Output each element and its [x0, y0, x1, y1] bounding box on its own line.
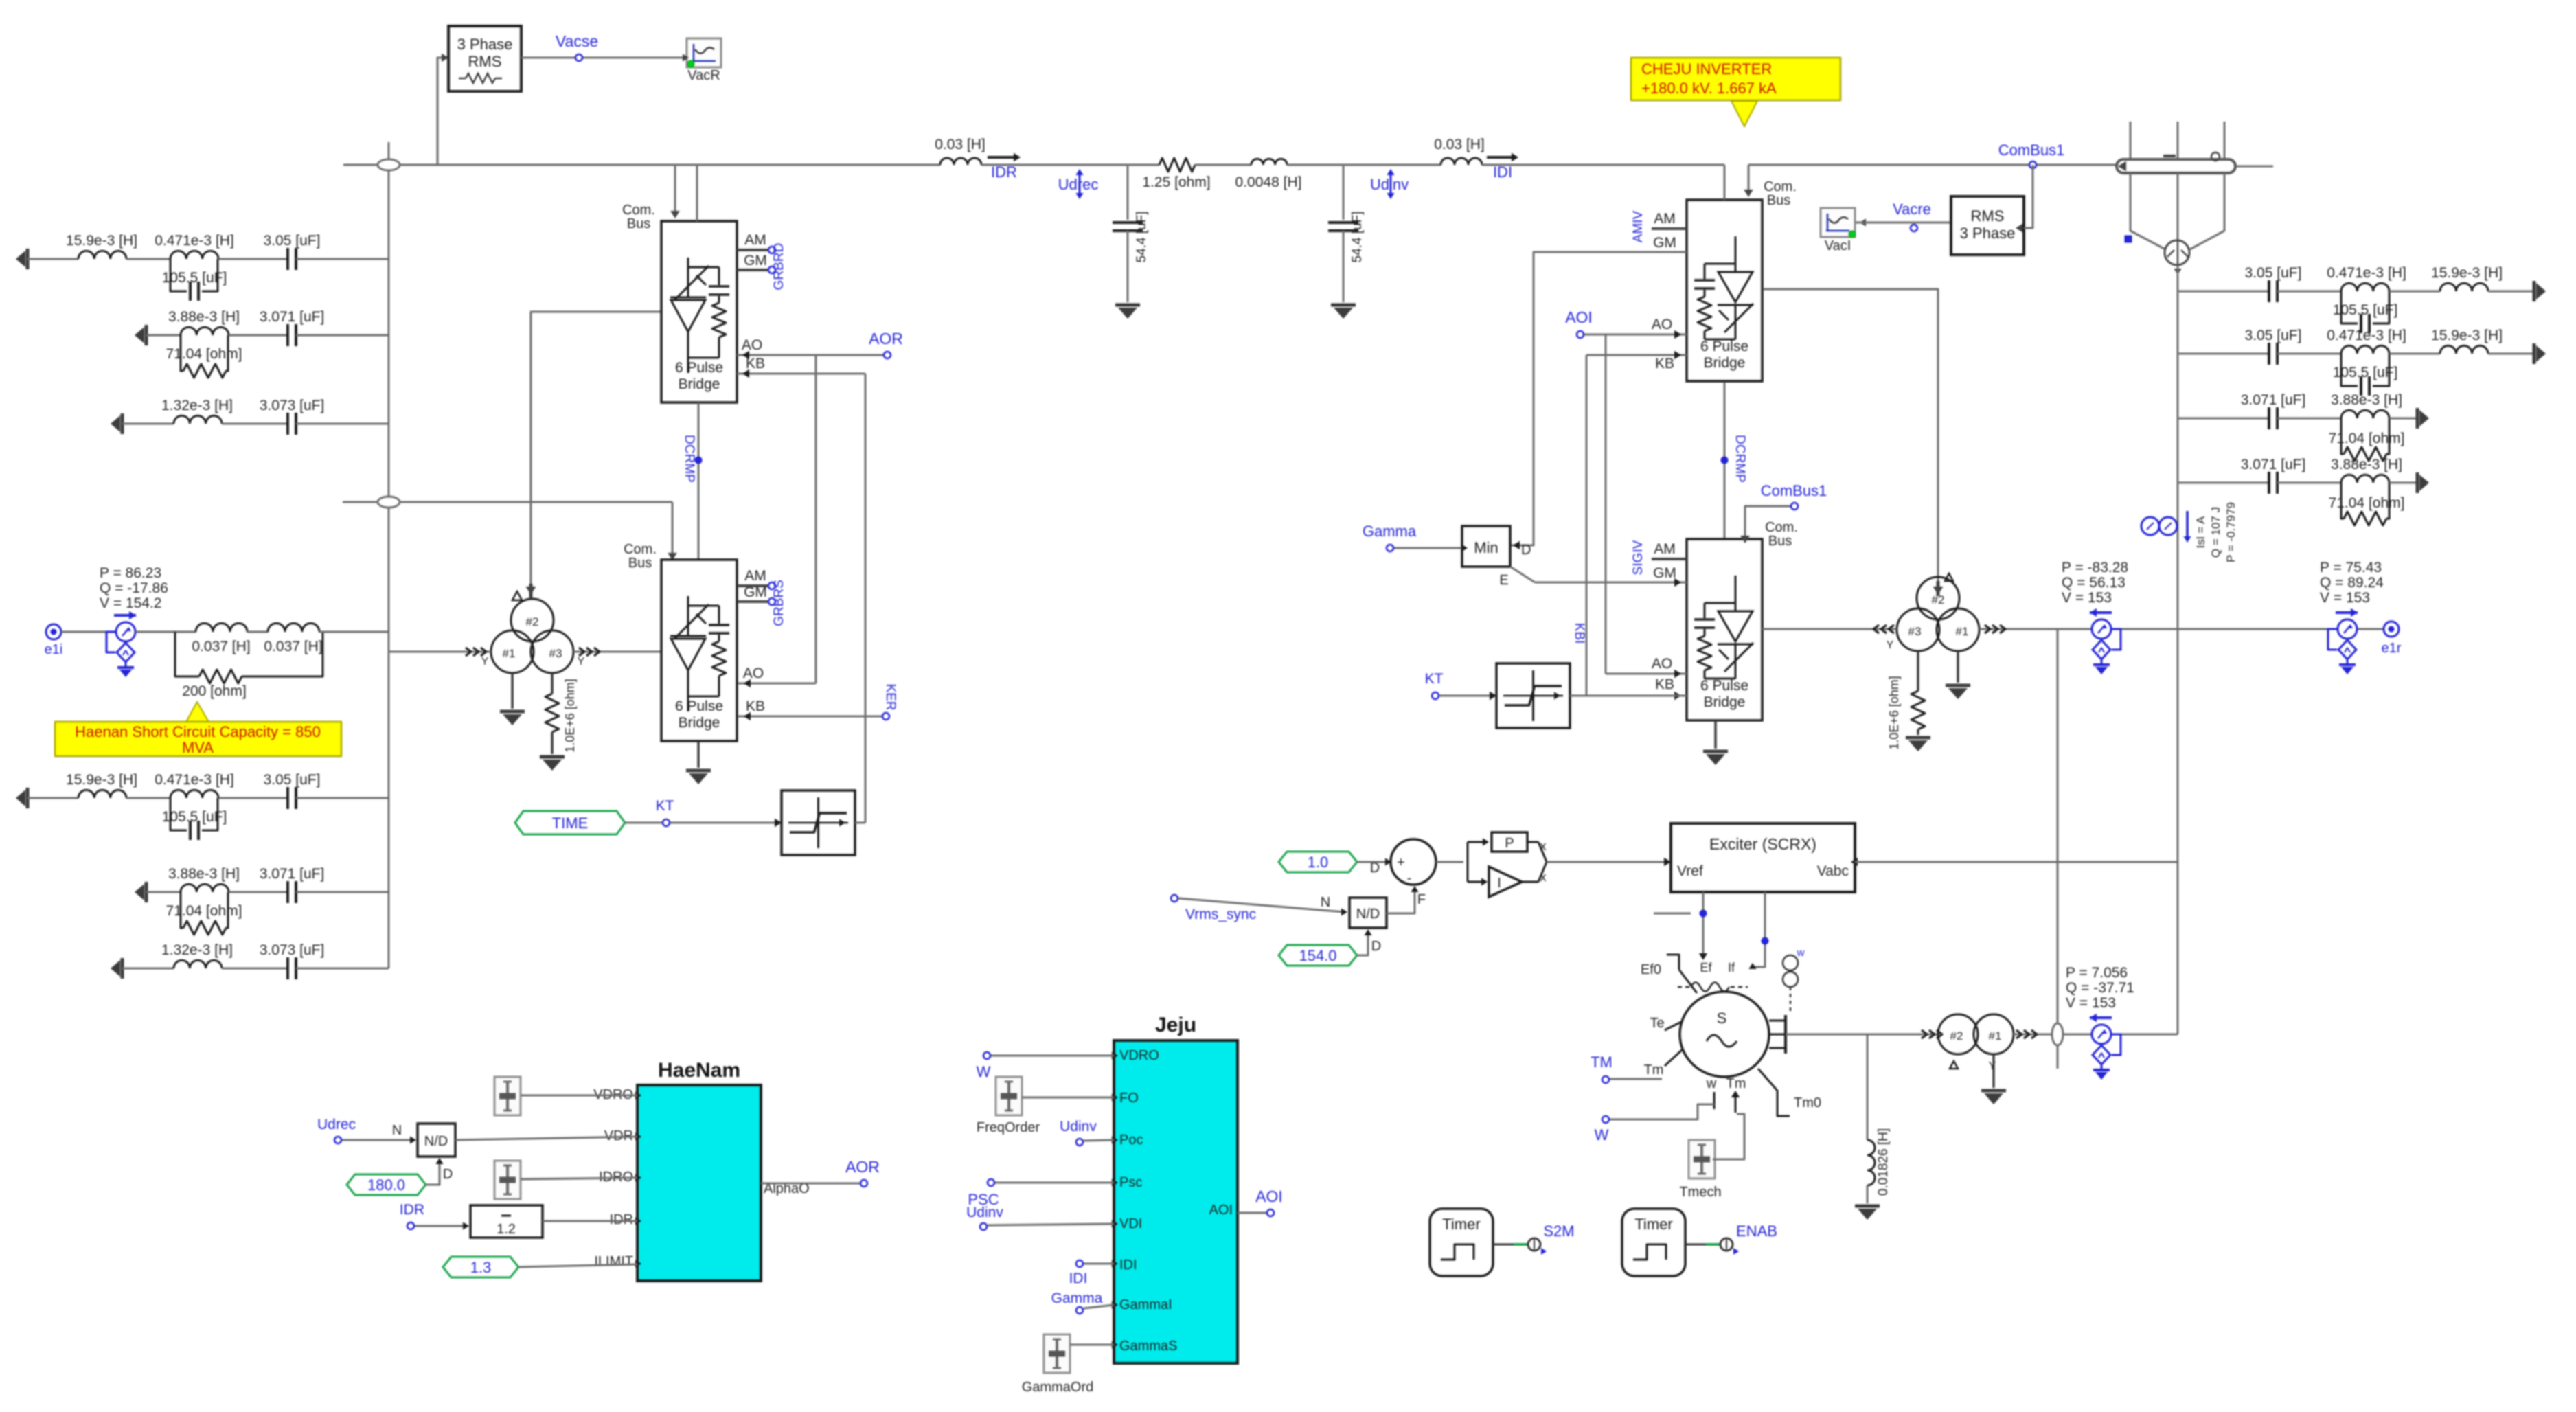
ground (right) — [2533, 343, 2536, 364]
node W data label — [1602, 1116, 1609, 1123]
svg-text:x: x — [1540, 839, 1547, 853]
svg-text:IDI: IDI — [1119, 1257, 1137, 1273]
ground under winding #1 (inverter) — [1957, 651, 1959, 683]
svg-text:3.071 [uF]: 3.071 [uF] — [260, 866, 325, 882]
wire — [2277, 418, 2341, 420]
svg-text:#2: #2 — [526, 615, 539, 628]
wire DCRMP between bridges — [698, 402, 700, 560]
inductor 1.32e-3 [H] — [174, 415, 222, 424]
wire AO vertical tie (inverter) — [1605, 334, 1607, 674]
node AOI data label — [1577, 331, 1584, 338]
svg-text:Q = -37.71: Q = -37.71 — [2066, 980, 2134, 996]
svg-text:MVA: MVA — [182, 739, 214, 756]
wire — [27, 797, 78, 799]
svg-text:N/D: N/D — [1356, 907, 1380, 922]
svg-text:AMIV: AMIV — [1631, 210, 1645, 242]
resistor 71.04 [ohm] (parallel loop) — [2341, 483, 2344, 519]
resistor 200 [ohm] (parallel loop) — [175, 632, 199, 676]
svg-text:3.88e-3 [H]: 3.88e-3 [H] — [168, 309, 240, 325]
svg-text:0.03 [H]: 0.03 [H] — [935, 137, 985, 152]
svg-text:1.2: 1.2 — [497, 1222, 516, 1237]
block HaeNam controller (cyan) — [637, 1085, 761, 1281]
svg-text:W: W — [977, 1063, 991, 1080]
svg-text:3.073 [uF]: 3.073 [uF] — [260, 942, 325, 958]
svg-text:Y: Y — [481, 656, 489, 668]
pin KB (upper bridge) — [737, 373, 865, 375]
svg-text:Udinv: Udinv — [966, 1205, 1003, 1220]
wire timer output ENAB — [1685, 1244, 1706, 1246]
svg-text:3.071 [uF]: 3.071 [uF] — [260, 309, 325, 325]
svg-text:Vabc: Vabc — [1817, 863, 1849, 879]
svg-text:Udinv: Udinv — [1370, 176, 1409, 193]
svg-text:KB: KB — [746, 356, 765, 372]
svg-text:GammaI: GammaI — [1119, 1297, 1172, 1312]
resistor 71.04 [ohm] (parallel loop) — [2341, 418, 2344, 454]
wire Gamma to Min — [1394, 547, 1462, 549]
node AOR data label — [884, 352, 891, 358]
capacitor 54.4 [uF] DC shunt (left) — [1127, 165, 1129, 220]
wire KB vertical tie (inverter) — [1586, 355, 1588, 696]
meter rotation w (dashed) — [1783, 955, 1798, 970]
svg-text:D: D — [1371, 939, 1381, 954]
wire transformer #3 to lower bridge AC — [573, 651, 661, 653]
svg-text:AOI: AOI — [1209, 1203, 1233, 1218]
capacitor 105.5 [uF] (parallel loop) — [2341, 354, 2358, 386]
wire DC out of bridge top — [696, 165, 698, 221]
svg-text:-: - — [1407, 871, 1412, 886]
wire summer to PI — [1436, 861, 1463, 863]
node Udinv data label (Poc) — [1076, 1139, 1083, 1146]
svg-text:AOI: AOI — [1255, 1187, 1283, 1205]
node Udinv data label (VDI) — [980, 1223, 987, 1230]
svg-text:P: P — [1505, 836, 1514, 851]
inductor 0.0048 [H] DC line — [1251, 159, 1287, 165]
wire Vacre from RMS to VacI — [1856, 222, 1951, 224]
node bus oval at condenser bus — [2052, 1023, 2063, 1045]
svg-text:AOR: AOR — [869, 330, 903, 348]
inductor 1.32e-3 [H] — [174, 960, 222, 968]
svg-text:1.32e-3 [H]: 1.32e-3 [H] — [161, 398, 233, 413]
svg-text:S2M: S2M — [1543, 1222, 1574, 1240]
block Timer (ENAB) — [1622, 1209, 1685, 1276]
wire — [1195, 164, 1251, 166]
wire If measure down — [1753, 892, 1765, 967]
svg-text:6 Pulse: 6 Pulse — [1700, 339, 1748, 354]
svg-text:6 Pulse: 6 Pulse — [675, 698, 723, 714]
svg-text:IDR: IDR — [400, 1202, 424, 1218]
block N/D divider — [1349, 898, 1387, 928]
wire GammaOrd to GammaS — [1070, 1344, 1114, 1346]
wire Ef0 stub — [1654, 913, 1691, 915]
svg-text:Min: Min — [1474, 539, 1498, 556]
svg-text:#1: #1 — [503, 647, 516, 660]
wire inverter upper bridge AC to transformer — [1763, 289, 1938, 591]
wire T3 to bus node — [2014, 1034, 2052, 1036]
meter VacR — [687, 38, 721, 67]
svg-text:ComBus1: ComBus1 — [1998, 141, 2065, 159]
svg-text:Q = 56.13: Q = 56.13 — [2062, 575, 2125, 591]
wire condenser bus to source — [2063, 1034, 2178, 1036]
wire DC into inverter bridge top — [1724, 165, 1726, 200]
wire — [222, 968, 288, 970]
wire Vrms_sync to N/D — [1178, 898, 1345, 912]
svg-text:Jeju: Jeju — [1155, 1014, 1196, 1036]
svg-text:Te: Te — [1650, 1016, 1664, 1031]
label delta winding — [1945, 573, 1953, 581]
svg-text:GammaS: GammaS — [1119, 1339, 1177, 1354]
ground (right) — [2416, 408, 2419, 429]
capacitor 105.5 [uF] (parallel loop) — [170, 798, 187, 830]
wire — [319, 631, 389, 633]
inductor 0.037 [H] #1 — [196, 624, 247, 633]
wire AC bus to 3 Phase RMS — [437, 58, 443, 165]
svg-text:Bridge: Bridge — [1704, 355, 1746, 371]
svg-text:ENAB: ENAB — [1736, 1222, 1777, 1240]
svg-text:1.0E+6 [ohm]: 1.0E+6 [ohm] — [563, 679, 577, 753]
pin GM (inverter upper) wire to Min D — [1510, 252, 1687, 545]
svg-text:3.05 [uF]: 3.05 [uF] — [264, 233, 321, 249]
wire — [146, 891, 181, 893]
node KER data label (rotated) — [882, 713, 889, 720]
slider GammaOrd — [1044, 1334, 1070, 1373]
capacitor 54.4 [uF] DC shunt (right) — [1343, 165, 1345, 220]
wire — [1084, 1263, 1114, 1265]
wire KB vertical tie — [865, 374, 867, 823]
node Cheju AC bus (vertical) — [2177, 265, 2179, 1034]
svg-text:15.9e-3 [H]: 15.9e-3 [H] — [66, 233, 137, 249]
svg-text:P = -83.28: P = -83.28 — [2062, 560, 2128, 576]
node Haenam AC bus (vertical) — [388, 165, 390, 968]
svg-text:Tm: Tm — [1726, 1076, 1746, 1091]
node TM data label — [1602, 1076, 1609, 1083]
label delta winding — [512, 591, 522, 600]
svg-text:0.037 [H]: 0.037 [H] — [264, 639, 322, 654]
wire Udrec to N/D — [342, 1139, 413, 1141]
svg-text:Bus: Bus — [1768, 534, 1792, 549]
meter IDI current arrow — [1487, 156, 1514, 159]
slider VDRO input — [494, 1077, 521, 1115]
node junction N1 on AC bus — [388, 142, 390, 184]
ground (right) — [2416, 472, 2419, 493]
wire — [2178, 418, 2269, 420]
node ComBus1 data label (top) — [2029, 161, 2036, 168]
svg-text:Y: Y — [1887, 639, 1894, 651]
machine stator taps — [1769, 1020, 1786, 1022]
svg-text:#2: #2 — [1950, 1029, 1963, 1043]
svg-text:Gamma: Gamma — [1363, 523, 1417, 540]
svg-text:AO: AO — [743, 665, 764, 681]
node Udrec data label (control) — [334, 1137, 341, 1143]
block Min (gamma select) — [1462, 526, 1510, 567]
slider Tmech — [1689, 1140, 1715, 1178]
wire — [296, 423, 389, 425]
wire — [229, 334, 288, 337]
wire — [988, 1224, 1114, 1225]
svg-text:AO: AO — [1652, 656, 1672, 672]
svg-text:1.25 [ohm]: 1.25 [ohm] — [1142, 174, 1210, 190]
svg-text:AM: AM — [1654, 541, 1676, 557]
meter VacI — [1821, 208, 1855, 237]
source P=-83.28 (fixed source pair) — [2090, 611, 2112, 614]
wire 1.2 out to IDR pin — [543, 1220, 637, 1222]
resistor 1.0E+6 [ohm] grounding winding #3 (inverter) — [1917, 651, 1919, 691]
svg-text:If: If — [1728, 961, 1735, 975]
svg-text:+: + — [1397, 855, 1405, 870]
svg-text:Q = 89.24: Q = 89.24 — [2320, 575, 2384, 591]
wire limiter output to KB wire — [1570, 695, 1687, 697]
source P=7.056 (condenser source pair) — [2090, 1016, 2112, 1019]
node DCRMP tap (inverter) — [1721, 457, 1728, 464]
wire — [296, 334, 389, 337]
svg-text:w: w — [1706, 1076, 1717, 1091]
svg-text:AOI: AOI — [1565, 308, 1593, 326]
svg-text:Tmech: Tmech — [1679, 1185, 1721, 1200]
svg-text:D: D — [443, 1167, 453, 1182]
capacitor 3.071 [uF] — [286, 324, 289, 346]
svg-text:0.01826 [H]: 0.01826 [H] — [1876, 1128, 1891, 1196]
node Vrms_sync data label — [1171, 895, 1178, 902]
capacitor 3.071 [uF] — [2268, 407, 2270, 429]
wire 1.0 to summer — [1357, 861, 1386, 863]
meter Udinv voltage arrows — [1390, 173, 1392, 195]
svg-text:VacI: VacI — [1825, 238, 1851, 253]
pin AM (inverter upper) — [1652, 227, 1687, 230]
svg-text:0.0048 [H]: 0.0048 [H] — [1235, 174, 1302, 190]
wire 154.0 to N/D denominator — [1357, 932, 1368, 955]
svg-text:Bus: Bus — [1767, 193, 1790, 208]
wire — [2488, 353, 2534, 355]
node KT data label (inverter) — [1432, 692, 1439, 699]
svg-text:Timer: Timer — [1634, 1216, 1672, 1233]
capacitor 3.05 [uF] — [2268, 343, 2270, 365]
svg-text:71.04 [ohm]: 71.04 [ohm] — [2329, 495, 2405, 511]
wire Cheju AC row — [2081, 628, 2335, 630]
svg-text:#1: #1 — [1989, 1029, 2002, 1043]
svg-text:0.471e-3 [H]: 0.471e-3 [H] — [155, 772, 234, 788]
wire ComBus drop to lower rectifier bridge — [672, 502, 674, 554]
svg-text:FO: FO — [1119, 1091, 1139, 1106]
wire — [2277, 291, 2341, 293]
wire — [1482, 164, 1724, 166]
wire — [2389, 353, 2440, 355]
data tag 180.0 — [347, 1174, 426, 1195]
svg-text:GM: GM — [1653, 235, 1676, 251]
svg-text:Tm0: Tm0 — [1794, 1095, 1821, 1111]
svg-text:1.3: 1.3 — [470, 1259, 492, 1276]
meter IDR current arrow — [988, 156, 1016, 159]
node ComBus1 data label (lower) — [1791, 503, 1798, 510]
wire — [521, 1178, 637, 1179]
svg-text:3.88e-3 [H]: 3.88e-3 [H] — [2331, 392, 2402, 408]
node Vacre data label — [1911, 225, 1917, 231]
wire cable to star point — [2130, 173, 2165, 249]
inductor 0.471e-3 [H] — [2341, 345, 2389, 354]
svg-text:3 Phase: 3 Phase — [1960, 225, 2016, 242]
pin AM (upper bridge) — [737, 249, 769, 251]
data tag 1.0 — [1279, 852, 1357, 872]
svg-text:Bridge: Bridge — [679, 376, 720, 392]
pin GM (upper bridge) — [737, 269, 769, 271]
inductor 3.88e-3 [H] — [2341, 410, 2389, 418]
svg-text:Haenan Short Circuit Capacity: Haenan Short Circuit Capacity = 850 — [75, 723, 321, 740]
svg-text:3.073 [uF]: 3.073 [uF] — [260, 398, 325, 413]
wire PSC to Psc — [995, 1182, 1114, 1184]
svg-text:KB: KB — [1655, 356, 1674, 372]
svg-text:Com.: Com. — [1764, 179, 1797, 194]
ground (left) — [121, 413, 124, 434]
inductor 0.037 [H] #2 — [268, 624, 319, 633]
wire AC top bus (inverter to cable) — [1748, 164, 2122, 166]
wire — [2335, 628, 2384, 630]
block N/D divider (HaeNam) — [418, 1124, 455, 1157]
svg-text:V = 153: V = 153 — [2062, 590, 2112, 606]
svg-text:71.04 [ohm]: 71.04 [ohm] — [166, 903, 242, 919]
source e1i (controlled V/I source pair) — [114, 614, 136, 617]
pin AM (inverter lower) — [1652, 558, 1687, 560]
svg-text:3 Phase: 3 Phase — [457, 36, 513, 53]
converter 6 Pulse Bridge (rectifier lower) — [661, 560, 737, 741]
transformer T3 2-winding (machine) — [1938, 1014, 1978, 1054]
svg-text:DCRMP: DCRMP — [1733, 435, 1747, 483]
node PSC data label — [988, 1179, 994, 1186]
svg-text:GammaOrd: GammaOrd — [1022, 1380, 1093, 1395]
svg-text:Y: Y — [1989, 1060, 1996, 1072]
svg-text:0.471e-3 [H]: 0.471e-3 [H] — [2327, 265, 2406, 281]
svg-text:AM: AM — [744, 568, 766, 584]
ground below inverter lower bridge — [1714, 720, 1717, 749]
capacitor 3.071 [uF] — [2268, 472, 2270, 494]
wire N/D to VDR — [455, 1137, 637, 1140]
wire N/D out to summer — [1387, 889, 1415, 913]
node e1i terminal — [46, 624, 61, 639]
svg-text:F: F — [1417, 892, 1426, 907]
capacitor 3.05 [uF] — [286, 248, 289, 270]
pin AO (inverter lower) — [1606, 673, 1687, 675]
wire bridge1 AC to transformer #2 — [531, 312, 661, 595]
svg-text:FreqOrder: FreqOrder — [977, 1120, 1040, 1135]
svg-text:#1: #1 — [1956, 625, 1969, 638]
svg-text:105.5 [uF]: 105.5 [uF] — [162, 809, 227, 825]
wire limiter output to KB tie — [855, 822, 865, 824]
svg-text:Bus: Bus — [628, 556, 652, 571]
node Gamma data label (Jeju) — [1076, 1307, 1083, 1314]
svg-text:VDRO: VDRO — [1119, 1048, 1159, 1063]
wire — [1084, 1140, 1114, 1141]
inductor 15.9e-3 [H] — [78, 251, 126, 259]
svg-text:0.471e-3 [H]: 0.471e-3 [H] — [2327, 328, 2406, 343]
wire — [229, 891, 288, 893]
wire — [146, 334, 181, 337]
svg-text:P = 86.23: P = 86.23 — [100, 565, 161, 581]
wire — [126, 258, 170, 260]
wire 180.0 to N/D denominator — [426, 1161, 440, 1185]
inductor 15.9e-3 [H] — [78, 790, 126, 798]
svg-text:Y: Y — [578, 656, 585, 668]
svg-text:#3: #3 — [1908, 625, 1922, 638]
inductor 3.88e-3 [H] — [2341, 475, 2389, 483]
ground (right) — [2533, 281, 2536, 301]
machine field winding glyph — [1678, 986, 1689, 988]
wire ComBus into bridge top — [674, 165, 676, 216]
wire Exciter Vabc feedback from Cheju bus — [1855, 861, 2178, 863]
svg-text:RMS: RMS — [1971, 207, 2005, 225]
pin AO (lower bridge) — [738, 683, 816, 685]
svg-text:6 Pulse: 6 Pulse — [675, 360, 723, 376]
svg-text:3.05 [uF]: 3.05 [uF] — [2245, 328, 2302, 343]
wire ComBus1 from lower bridge — [1745, 506, 1790, 539]
svg-text:SIGIV: SIGIV — [1631, 540, 1645, 575]
wire W to machine w port — [1610, 1104, 1714, 1119]
block Exciter (SCRX) — [1671, 823, 1855, 892]
inductor 0.471e-3 [H] — [170, 251, 218, 259]
wire lower inverter bridge AC to transformer #3 — [1762, 628, 1897, 630]
svg-text:Q = -17.86: Q = -17.86 — [100, 580, 168, 596]
wire AOI out — [1238, 1212, 1266, 1214]
block PI controller — [1467, 842, 1469, 882]
svg-text:Vref: Vref — [1677, 863, 1703, 879]
svg-text:Gamma: Gamma — [1051, 1290, 1103, 1306]
svg-text:x: x — [1540, 870, 1547, 884]
node e1r terminal — [2384, 622, 2399, 637]
wire TM to machine Tm — [1610, 1078, 1662, 1080]
wire — [296, 968, 389, 970]
inductor 3.88e-3 [H] — [181, 327, 229, 335]
svg-text:3.071 [uF]: 3.071 [uF] — [2241, 392, 2306, 408]
transformer T1 3-winding (rectifier) — [511, 599, 554, 641]
svg-text:e1r: e1r — [2382, 641, 2402, 656]
machine synchronous condenser S — [1680, 992, 1769, 1077]
svg-text:GM: GM — [744, 584, 767, 600]
svg-text:Exciter (SCRX): Exciter (SCRX) — [1709, 835, 1816, 853]
capacitor 3.05 [uF] — [2268, 280, 2270, 302]
converter 6 Pulse Bridge (inverter upper) — [1687, 200, 1762, 381]
svg-text:1.0E+6 [ohm]: 1.0E+6 [ohm] — [1887, 676, 1901, 750]
wire transformer #1 to Cheju AC bus — [1979, 628, 2081, 630]
meter Udrec voltage arrows — [1079, 173, 1081, 195]
svg-text:KB: KB — [1655, 676, 1674, 692]
wire — [247, 631, 268, 633]
svg-text:P = 75.43: P = 75.43 — [2320, 560, 2382, 576]
svg-text:Bridge: Bridge — [679, 715, 720, 731]
wire AlphaO to AOR — [761, 1183, 860, 1185]
wire — [2389, 482, 2417, 484]
svg-text:DCRMP: DCRMP — [682, 435, 696, 483]
wire — [296, 797, 389, 799]
wire — [2178, 482, 2269, 484]
wire PI to Exciter Vref — [1547, 861, 1667, 863]
svg-text:GM: GM — [744, 253, 767, 269]
source shunt measurement source on Cheju bus — [2143, 525, 2178, 527]
capacitor 105.5 [uF] (parallel loop) — [2341, 291, 2358, 323]
wire ComBus1 down into RMS — [2024, 165, 2033, 228]
wire AO vertical tie — [815, 355, 817, 683]
pin Te stub — [1665, 1021, 1683, 1030]
wire — [521, 1095, 637, 1097]
svg-text:Com.: Com. — [624, 542, 657, 557]
block RMS 3 Phase (inverter side) — [1951, 196, 2024, 255]
svg-text:0.037 [H]: 0.037 [H] — [192, 639, 250, 654]
svg-text:15.9e-3 [H]: 15.9e-3 [H] — [66, 772, 137, 788]
pin KB (lower bridge) wire to KER — [738, 716, 882, 718]
capacitor 3.05 [uF] — [286, 787, 289, 809]
wire machine to transformer T3 — [1786, 1034, 1938, 1036]
inductor 0.01826 [H] to ground — [1867, 1034, 1869, 1140]
svg-text:TM: TM — [1591, 1054, 1612, 1071]
pin AO (upper bridge) wire to AOR — [737, 354, 883, 356]
capacitor 3.073 [uF] — [286, 413, 289, 435]
capacitor 3.071 [uF] — [286, 881, 289, 903]
ground under T3 winding #1 — [1992, 1054, 1995, 1088]
